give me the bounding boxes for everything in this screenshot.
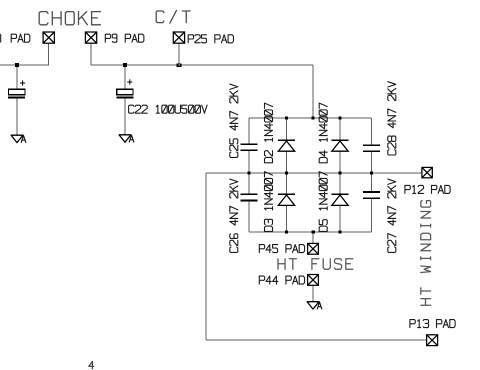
- ground at left cap (net A): [11, 135, 23, 142]
- label P13 PAD: [410, 320, 455, 328]
- wire D5 leads: [339, 173, 341, 194]
- label D2 1N4007 (rotated): [265, 103, 273, 163]
- wire bridge top bus: [249, 117, 372, 119]
- wire C25 leads: [248, 118, 250, 144]
- wire C22 top lead: [124, 65, 126, 89]
- label CHOKE: [39, 12, 100, 25]
- capacitor (left electrolytic): [8, 80, 25, 98]
- wire main bus P9 to bridge: [91, 64, 313, 66]
- diode D4: [332, 139, 349, 151]
- junction top bus at D2: [285, 116, 288, 119]
- junction middle bus at C28: [370, 171, 373, 174]
- wire P9 pad drop: [90, 43, 92, 65]
- wire bridge bottom bus: [249, 231, 372, 233]
- pad P8 (label clipped at edge): [43, 32, 54, 43]
- label D5 1N4007 (rotated): [319, 172, 327, 232]
- pad P12: [422, 167, 432, 177]
- capacitor C22: [116, 79, 133, 98]
- wire bus down to bridge top: [312, 65, 314, 118]
- label D4 1N4007 (rotated): [319, 103, 327, 163]
- label C28 4N7 2KV (rotated): [388, 82, 396, 155]
- junction bottom bus at D5: [338, 230, 341, 233]
- label P45 PAD: [259, 245, 304, 253]
- label HT FUSE: [278, 259, 353, 270]
- wire D2 leads: [286, 118, 288, 140]
- pad P9: [85, 32, 96, 43]
- wire bridge middle bus to P12: [206, 172, 422, 174]
- label C22 100U500V: [129, 105, 207, 113]
- pad P44: [308, 275, 319, 286]
- wire C26 leads: [248, 173, 250, 194]
- capacitor C26: [240, 193, 257, 201]
- diode D2: [278, 139, 295, 151]
- label D3 1N4007 (rotated): [265, 172, 273, 232]
- junction bottom bus at P45: [312, 230, 315, 233]
- wire D4 leads: [339, 118, 341, 140]
- wire D3 leads: [286, 173, 288, 194]
- diode D3: [278, 193, 295, 205]
- wire P45 pad drop: [312, 232, 314, 243]
- wire C22 bottom lead: [124, 98, 126, 134]
- label P25 PAD: [188, 35, 233, 43]
- wire C27 leads: [371, 173, 373, 192]
- capacitor C27: [363, 191, 380, 199]
- pad P25: [173, 32, 184, 43]
- junction C22 node: [123, 63, 127, 67]
- junction middle bus at D4: [338, 171, 341, 174]
- pad P13: [427, 335, 438, 346]
- junction small square under P25: [177, 63, 182, 66]
- ground at P44 (net A): [307, 302, 319, 309]
- junction top bus at D4: [338, 116, 341, 119]
- diode D5: [332, 193, 349, 205]
- label C/T: [156, 10, 190, 23]
- label P9 PAD: [105, 34, 144, 42]
- label P44 PAD: [259, 276, 304, 284]
- junction left cap node: [15, 63, 19, 67]
- junction top bus feed: [311, 116, 314, 119]
- junction middle bus at D2: [285, 171, 288, 174]
- label C25 4N7 2KV (rotated): [230, 84, 238, 157]
- capacitor C25: [240, 143, 257, 151]
- label HT WINDING (rotated): [421, 201, 431, 306]
- wire bottom long run to P13: [206, 339, 427, 341]
- label C27 4N7 2KV (rotated): [388, 179, 396, 252]
- wire P44 pad to ground: [312, 285, 314, 301]
- ground at C22 (net A): [119, 135, 131, 142]
- wire left cap bottom lead: [16, 98, 18, 135]
- label P12 PAD: [405, 185, 450, 193]
- wire left bus to page edge: [0, 64, 49, 66]
- wire left cap top lead: [16, 65, 18, 89]
- capacitor C28: [363, 144, 380, 152]
- sheet zone number 4: [89, 361, 94, 369]
- wire C28 leads: [371, 118, 373, 145]
- junction middle bus at C25: [247, 171, 250, 174]
- wire left pad drop: [48, 43, 50, 65]
- label C26 4N7 2KV (rotated): [230, 179, 238, 252]
- pad P45: [308, 243, 319, 254]
- junction bottom bus at D3: [285, 230, 288, 233]
- label P8 PAD (clipped): [0, 34, 1, 42]
- wire P25 pad drop: [178, 43, 180, 65]
- wire left long vertical: [205, 173, 207, 340]
